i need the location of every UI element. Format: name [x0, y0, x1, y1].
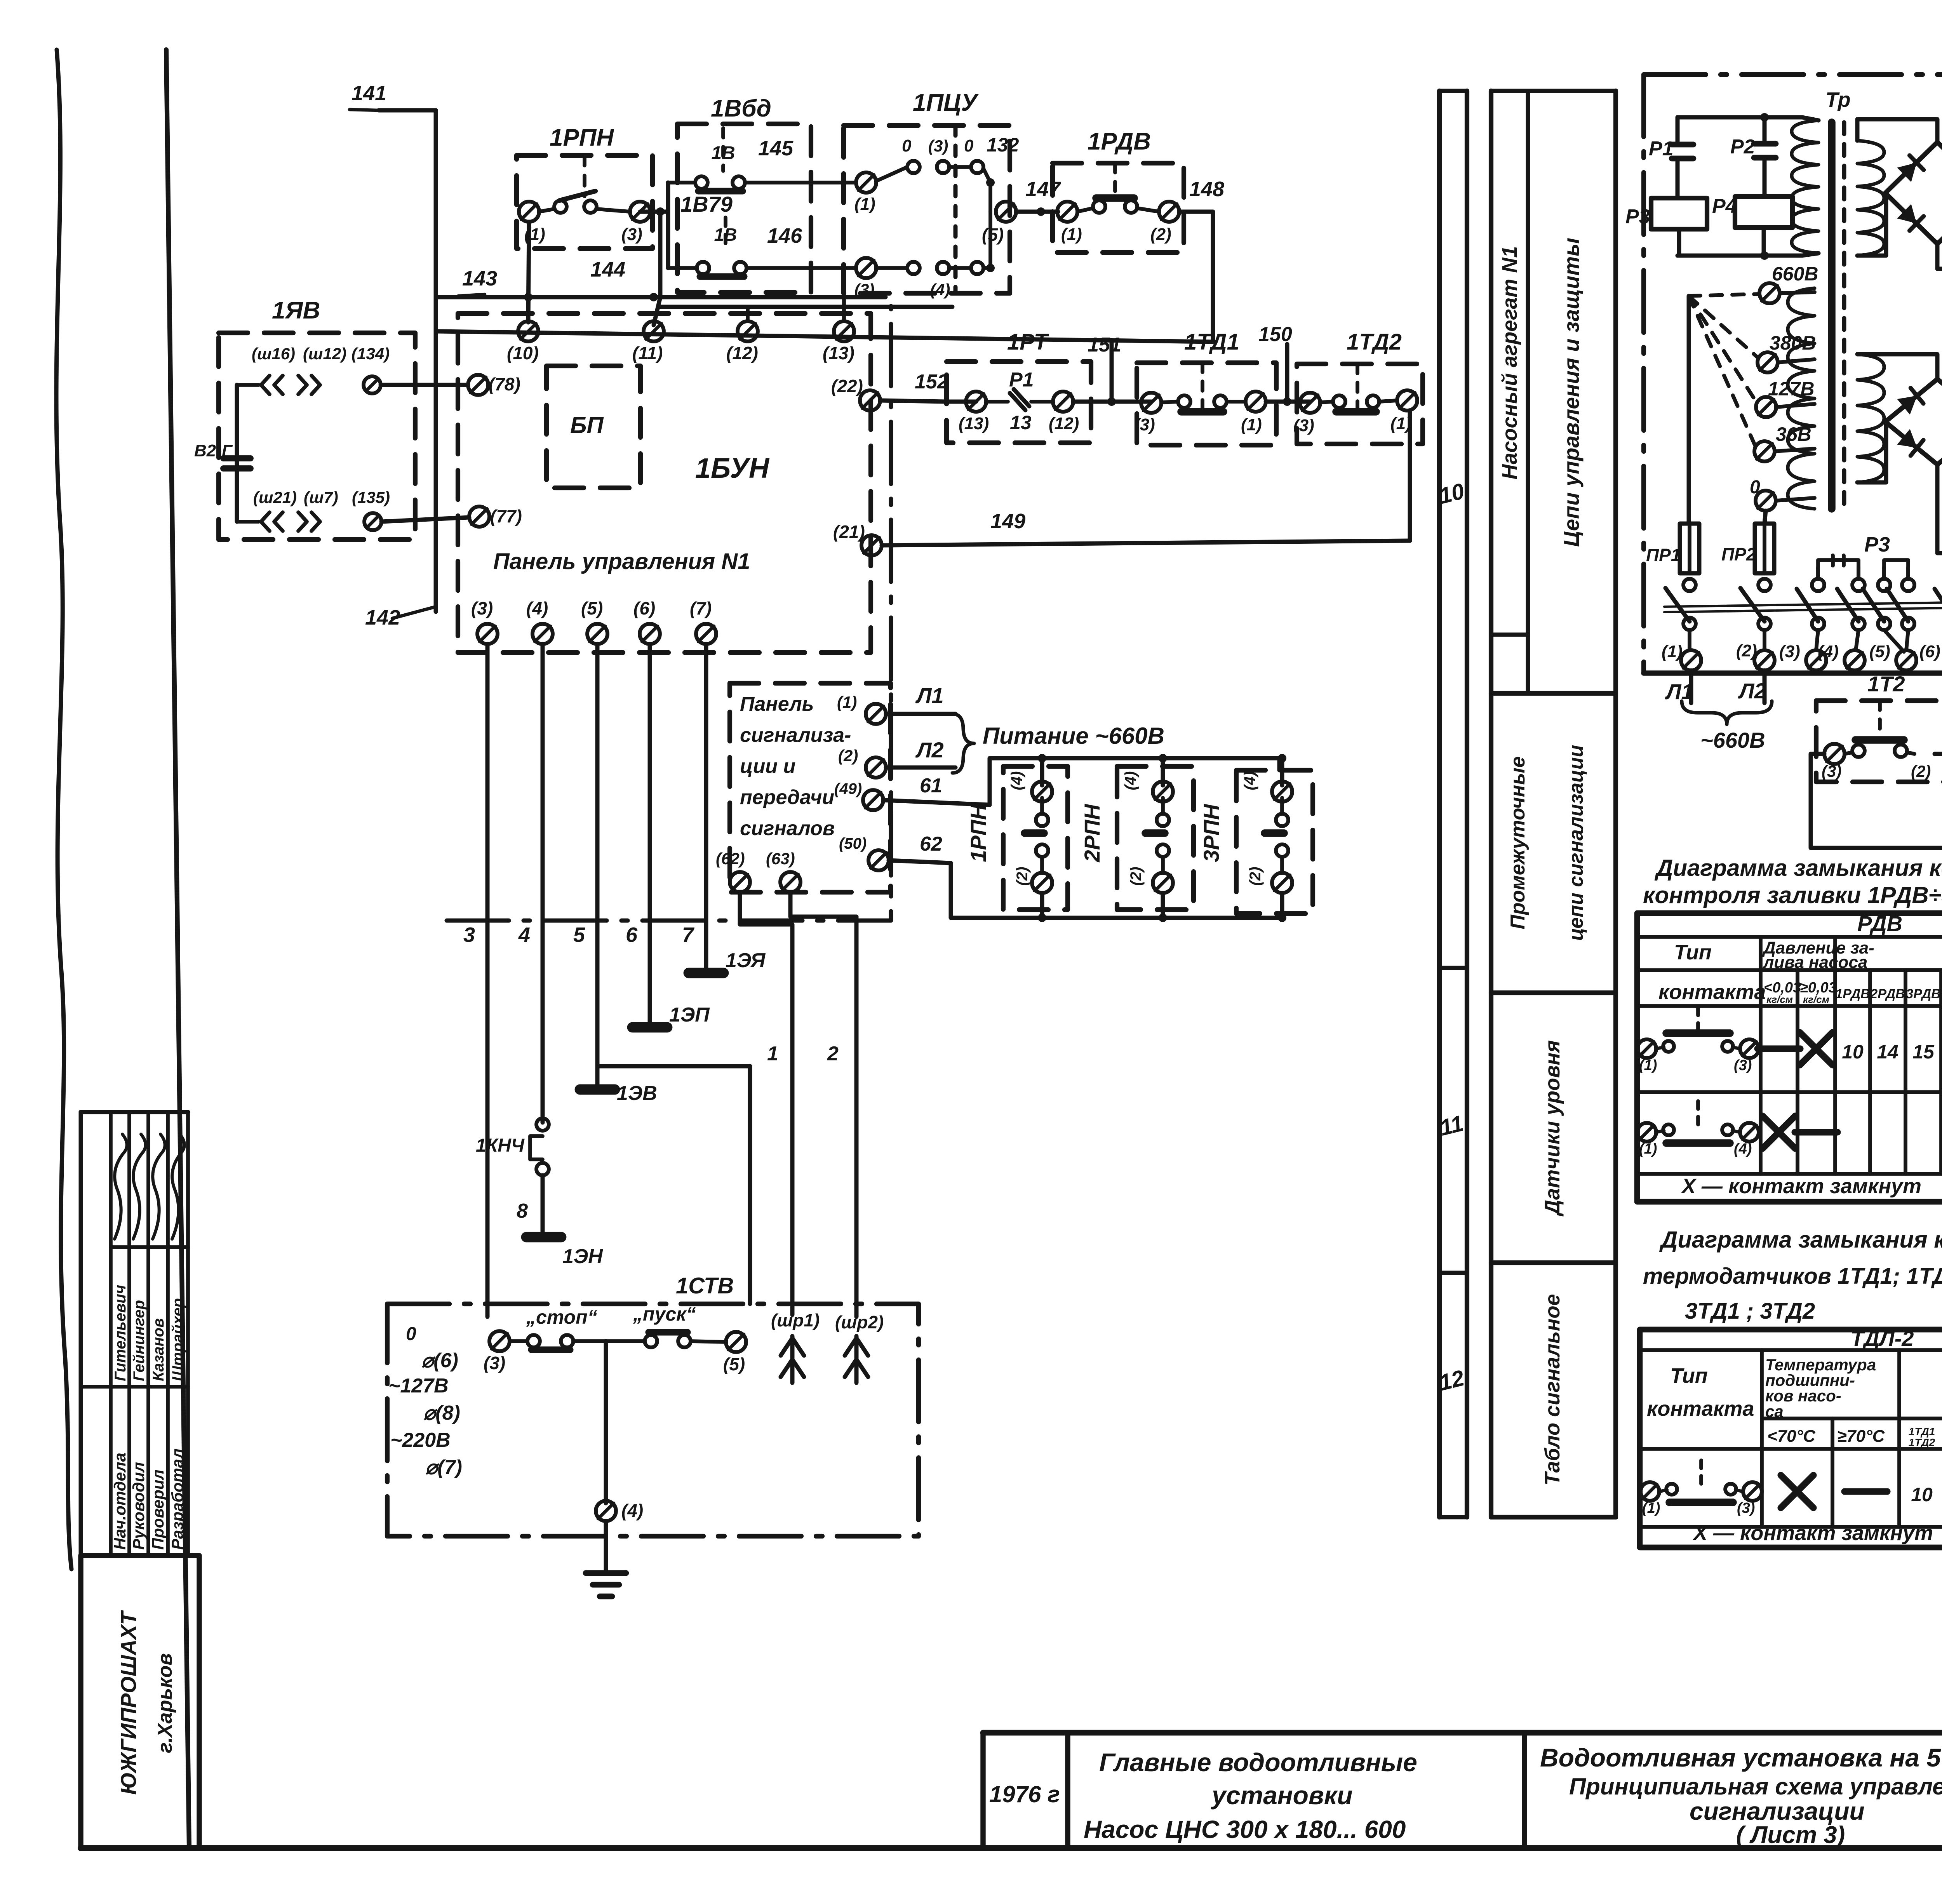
svg-text:1БУН: 1БУН	[695, 453, 770, 484]
svg-text:2РДВ: 2РДВ	[1870, 987, 1905, 1001]
svg-text:1Т2: 1Т2	[1867, 672, 1905, 696]
svg-text:1ЭЯ: 1ЭЯ	[726, 949, 766, 972]
svg-text:36В: 36В	[1776, 423, 1811, 445]
svg-text:(4): (4)	[1008, 771, 1025, 790]
svg-text:3РДВ: 3РДВ	[1906, 987, 1940, 1001]
svg-text:(4): (4)	[526, 598, 548, 618]
svg-text:(63): (63)	[766, 849, 795, 868]
svg-text:(3): (3)	[621, 225, 642, 244]
svg-text:сигнализа-: сигнализа-	[740, 724, 851, 747]
svg-text:61: 61	[920, 774, 942, 797]
svg-text:Диаграмма замыкания контакто: Диаграмма замыкания контактов	[1659, 1227, 1942, 1253]
svg-text:1ЭП: 1ЭП	[669, 1004, 710, 1026]
svg-text:⌀(6): ⌀(6)	[421, 1349, 458, 1372]
svg-text:Р2: Р2	[1730, 136, 1755, 158]
svg-text:Гейнингер: Гейнингер	[131, 1300, 148, 1381]
svg-text:15: 15	[1912, 1041, 1935, 1063]
svg-text:( Лист 3): ( Лист 3)	[1736, 1822, 1845, 1848]
svg-text:≥70°С: ≥70°С	[1837, 1427, 1885, 1446]
svg-text:ции и: ции и	[740, 755, 795, 778]
svg-text:(1): (1)	[1390, 414, 1411, 433]
svg-text:10: 10	[1842, 1041, 1864, 1063]
svg-text:1РПН: 1РПН	[550, 124, 614, 151]
svg-text:(2): (2)	[1150, 225, 1171, 244]
svg-text:Принципиальная схема управлени: Принципиальная схема управления и	[1569, 1773, 1942, 1800]
svg-text:Цепи управления и защиты: Цепи управления и защиты	[1559, 238, 1584, 547]
svg-text:Табло сигнальное: Табло сигнальное	[1541, 1294, 1564, 1485]
svg-text:Диаграмма замыкания контакто: Диаграмма замыкания контактов реле	[1654, 855, 1942, 881]
svg-text:1ПЦУ: 1ПЦУ	[913, 89, 979, 116]
svg-text:контакта: контакта	[1647, 1397, 1754, 1420]
svg-text:Л1: Л1	[1665, 679, 1693, 704]
svg-text:термодатчиков 1ТД1; 1ТД2; 2Т: термодатчиков 1ТД1; 1ТД2; 2ТД1; 2ТД2;	[1643, 1264, 1942, 1289]
svg-text:380В: 380В	[1770, 332, 1816, 354]
svg-text:<70°С: <70°С	[1767, 1427, 1816, 1446]
svg-text:X — контакт замкнут: X — контакт замкнут	[1692, 1521, 1933, 1545]
svg-text:8: 8	[517, 1200, 528, 1222]
svg-text:0: 0	[902, 136, 912, 155]
svg-text:(2): (2)	[1014, 867, 1031, 886]
svg-text:(3): (3)	[928, 137, 948, 155]
svg-text:Р1: Р1	[1649, 137, 1674, 160]
svg-text:7: 7	[682, 923, 695, 947]
svg-text:146: 146	[767, 224, 802, 247]
svg-text:(3): (3)	[1134, 415, 1155, 434]
svg-text:(50): (50)	[839, 835, 867, 852]
svg-text:(1): (1)	[1642, 1500, 1660, 1516]
svg-text:(2): (2)	[1247, 867, 1264, 886]
svg-text:3ТД1 ; 3ТД2: 3ТД1 ; 3ТД2	[1685, 1298, 1815, 1324]
svg-text:1976 г: 1976 г	[989, 1781, 1060, 1807]
svg-text:10: 10	[1911, 1484, 1933, 1505]
svg-text:(3): (3)	[471, 598, 493, 618]
svg-text:1РДВ: 1РДВ	[1835, 987, 1870, 1001]
svg-text:Проверил: Проверил	[149, 1469, 167, 1550]
svg-text:(3): (3)	[1737, 1500, 1755, 1516]
svg-text:(5): (5)	[1869, 642, 1890, 661]
svg-text:контакта: контакта	[1658, 980, 1766, 1004]
svg-text:6: 6	[626, 923, 638, 947]
svg-text:(1): (1)	[1662, 642, 1683, 661]
svg-text:143: 143	[462, 267, 497, 290]
svg-text:(21): (21)	[833, 522, 865, 542]
svg-text:Водоотливная установка на 5: Водоотливная установка на 5 агрегатов	[1540, 1743, 1942, 1772]
svg-text:Штрайхер: Штрайхер	[169, 1298, 186, 1381]
svg-text:Р3: Р3	[1864, 533, 1890, 556]
svg-text:3: 3	[463, 923, 475, 947]
svg-text:5: 5	[573, 923, 585, 947]
svg-text:передачи: передачи	[740, 786, 834, 809]
svg-text:Р4: Р4	[1712, 195, 1737, 218]
svg-text:(ш12): (ш12)	[303, 345, 346, 363]
svg-text:(12): (12)	[1049, 414, 1079, 433]
svg-text:144: 144	[590, 258, 625, 281]
svg-text:лива насоса: лива насоса	[1763, 953, 1867, 972]
svg-text:Нач.отдела: Нач.отдела	[111, 1453, 129, 1550]
svg-text:(4): (4)	[1122, 771, 1139, 790]
svg-text:(4): (4)	[1241, 771, 1258, 790]
svg-text:150: 150	[1258, 323, 1292, 346]
svg-text:(1): (1)	[837, 693, 857, 711]
svg-text:0: 0	[964, 136, 974, 155]
svg-text:Датчики уровня: Датчики уровня	[1541, 1040, 1564, 1217]
svg-text:(5): (5)	[723, 1354, 745, 1374]
svg-text:(1): (1)	[1061, 225, 1082, 244]
svg-text:(13): (13)	[959, 414, 989, 433]
svg-text:Промежуточные: Промежуточные	[1507, 756, 1529, 929]
svg-text:141: 141	[352, 82, 386, 105]
svg-text:(22): (22)	[831, 376, 863, 396]
svg-text:(1): (1)	[854, 195, 875, 214]
svg-text:1ТД1: 1ТД1	[1184, 329, 1239, 355]
svg-text:(1): (1)	[1639, 1057, 1657, 1074]
svg-text:14: 14	[1877, 1041, 1898, 1063]
svg-text:0: 0	[1750, 477, 1760, 498]
svg-text:сигналов: сигналов	[740, 817, 835, 840]
svg-text:„стоп“: „стоп“	[526, 1306, 597, 1328]
svg-text:са: са	[1765, 1402, 1784, 1420]
svg-text:(12): (12)	[726, 343, 758, 363]
svg-text:1КНЧ: 1КНЧ	[476, 1135, 525, 1156]
svg-text:цепи сигнализации: цепи сигнализации	[1565, 745, 1587, 941]
svg-text:~220В: ~220В	[390, 1429, 451, 1451]
svg-text:(77): (77)	[490, 506, 522, 526]
svg-text:кг/см: кг/см	[1766, 994, 1793, 1005]
svg-text:Р3: Р3	[1625, 205, 1650, 228]
svg-text:1ТД1: 1ТД1	[1909, 1425, 1935, 1438]
svg-text:(13): (13)	[823, 343, 854, 363]
svg-text:1ТД2: 1ТД2	[1347, 329, 1402, 355]
svg-text:(7): (7)	[690, 598, 712, 618]
svg-text:(6): (6)	[633, 598, 655, 618]
svg-text:кг/см: кг/см	[1803, 994, 1829, 1005]
svg-text:ПР1: ПР1	[1646, 545, 1681, 565]
svg-text:Насосный агрегат N1: Насосный агрегат N1	[1498, 246, 1521, 480]
svg-text:4: 4	[518, 923, 530, 947]
svg-text:152: 152	[915, 371, 948, 393]
svg-text:Тип: Тип	[1674, 941, 1712, 964]
svg-text:3РПН: 3РПН	[1199, 804, 1223, 862]
svg-text:(шр2): (шр2)	[835, 1312, 884, 1332]
svg-text:(49): (49)	[834, 780, 862, 797]
svg-text:(3): (3)	[1734, 1057, 1752, 1074]
svg-text:1ТД2: 1ТД2	[1909, 1436, 1935, 1448]
svg-text:62: 62	[920, 833, 942, 855]
svg-text:13: 13	[1010, 412, 1032, 433]
svg-text:(5): (5)	[581, 598, 603, 618]
svg-text:(2): (2)	[838, 747, 858, 765]
svg-text:149: 149	[990, 510, 1025, 533]
svg-text:132: 132	[987, 134, 1019, 156]
svg-text:Питание ~660В: Питание ~660В	[983, 723, 1164, 749]
svg-text:1РТ: 1РТ	[1007, 329, 1049, 355]
svg-text:(ш21): (ш21)	[253, 488, 297, 506]
svg-text:(11): (11)	[632, 343, 663, 363]
svg-text:1СТВ: 1СТВ	[676, 1273, 734, 1298]
svg-text:ПР2: ПР2	[1721, 544, 1756, 564]
svg-text:(1): (1)	[1639, 1141, 1657, 1157]
svg-text:X — контакт замкнут: X — контакт замкнут	[1681, 1175, 1921, 1198]
svg-text:1Вбд: 1Вбд	[711, 95, 771, 122]
svg-text:контроля заливки 1РДВ÷3РДВ: контроля заливки 1РДВ÷3РДВ	[1643, 882, 1942, 908]
svg-text:1: 1	[767, 1043, 778, 1065]
svg-text:Л1: Л1	[915, 683, 944, 708]
svg-text:0: 0	[406, 1324, 416, 1344]
svg-text:Л2: Л2	[1738, 679, 1766, 703]
svg-text:РДВ: РДВ	[1857, 911, 1902, 936]
svg-text:установки: установки	[1211, 1781, 1353, 1810]
svg-text:1РПН: 1РПН	[966, 804, 990, 862]
svg-text:Руководил: Руководил	[129, 1462, 148, 1550]
svg-text:(ш16): (ш16)	[252, 345, 295, 363]
svg-text:(3): (3)	[1822, 762, 1841, 780]
svg-text:(5): (5)	[982, 225, 1004, 245]
svg-text:2: 2	[827, 1043, 839, 1065]
svg-text:(4): (4)	[1818, 642, 1839, 661]
svg-text:(2): (2)	[1128, 867, 1145, 886]
svg-text:151: 151	[1088, 334, 1121, 356]
svg-text:Панель управления N1: Панель управления N1	[493, 549, 750, 574]
svg-text:Гительевич: Гительевич	[112, 1285, 129, 1381]
svg-text:2РПН: 2РПН	[1080, 804, 1104, 863]
svg-text:148: 148	[1189, 178, 1224, 201]
svg-text:Насос ЦНС 300 х 180... 60: Насос ЦНС 300 х 180... 600	[1084, 1815, 1406, 1843]
svg-text:(2): (2)	[1736, 641, 1757, 660]
svg-text:(4): (4)	[1734, 1141, 1752, 1157]
svg-text:1ЯВ: 1ЯВ	[272, 297, 320, 324]
svg-text:⌀(8): ⌀(8)	[423, 1402, 460, 1424]
svg-text:1В79: 1В79	[680, 192, 733, 216]
svg-text:(62): (62)	[716, 849, 745, 868]
svg-text:Разработал: Разработал	[168, 1448, 186, 1550]
svg-text:(3): (3)	[1293, 416, 1314, 435]
svg-text:⌀(7): ⌀(7)	[425, 1456, 462, 1479]
svg-text:ЮЖГИПРОШАХТ: ЮЖГИПРОШАХТ	[116, 1610, 141, 1794]
svg-text:(78): (78)	[489, 374, 520, 394]
svg-text:1ЭН: 1ЭН	[562, 1245, 603, 1268]
svg-text:660В: 660В	[1772, 263, 1818, 285]
svg-text:БП: БП	[570, 412, 604, 438]
svg-text:(3): (3)	[1779, 642, 1800, 661]
svg-text:(2): (2)	[1911, 762, 1931, 780]
svg-text:(10): (10)	[507, 343, 539, 363]
svg-text:Л2: Л2	[915, 738, 944, 762]
svg-text:127В: 127В	[1768, 378, 1815, 400]
svg-text:145: 145	[758, 137, 794, 160]
svg-text:(4): (4)	[621, 1500, 643, 1521]
svg-text:~660В: ~660В	[1700, 728, 1765, 752]
svg-text:(6): (6)	[1919, 642, 1940, 661]
svg-text:„пуск“: „пуск“	[633, 1303, 696, 1325]
svg-text:(134): (134)	[352, 345, 390, 363]
svg-text:сигнализации: сигнализации	[1690, 1797, 1865, 1825]
svg-text:ТДЛ-2: ТДЛ-2	[1851, 1326, 1914, 1351]
svg-text:147: 147	[1025, 178, 1061, 201]
svg-text:1ЭВ: 1ЭВ	[617, 1082, 657, 1105]
svg-text:г.Харьков: г.Харьков	[154, 1653, 176, 1753]
svg-text:1РДВ: 1РДВ	[1088, 128, 1151, 155]
svg-text:(135): (135)	[352, 488, 390, 506]
svg-text:Главные водоотливные: Главные водоотливные	[1099, 1748, 1417, 1777]
svg-text:~127В: ~127В	[388, 1375, 449, 1397]
svg-text:(3): (3)	[484, 1353, 505, 1373]
svg-text:(шр1): (шр1)	[771, 1310, 820, 1330]
svg-text:(ш7): (ш7)	[304, 488, 338, 506]
svg-text:Казанов: Казанов	[150, 1318, 167, 1381]
svg-text:Панель: Панель	[740, 693, 814, 715]
svg-text:(1): (1)	[1241, 415, 1262, 434]
svg-text:Тр: Тр	[1825, 88, 1851, 111]
svg-text:(4): (4)	[930, 280, 950, 299]
svg-text:Тип: Тип	[1670, 1364, 1708, 1387]
